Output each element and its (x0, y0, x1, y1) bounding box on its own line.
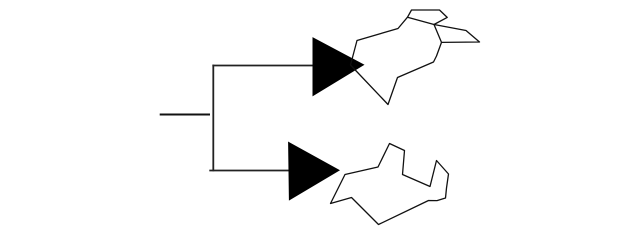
wire: cloud A inner fold FL-J (408, 17, 435, 24)
buffer U1 (top amplifier triangle) (313, 38, 364, 96)
node B: scribble cloud at U2 output (outline) (331, 144, 449, 225)
wire: top branch to buffer U1 input (212, 65, 313, 67)
wire: input stub (net IN) (160, 114, 210, 116)
node A: scribble cloud at U1 output (outline) (351, 10, 480, 105)
wire: cloud A inner fold J-RB (434, 25, 442, 43)
wire: vertical branch bus (212, 65, 214, 172)
buffer U2 (bottom amplifier triangle) (289, 142, 339, 199)
wire: bottom branch to buffer U2 input (209, 170, 290, 172)
